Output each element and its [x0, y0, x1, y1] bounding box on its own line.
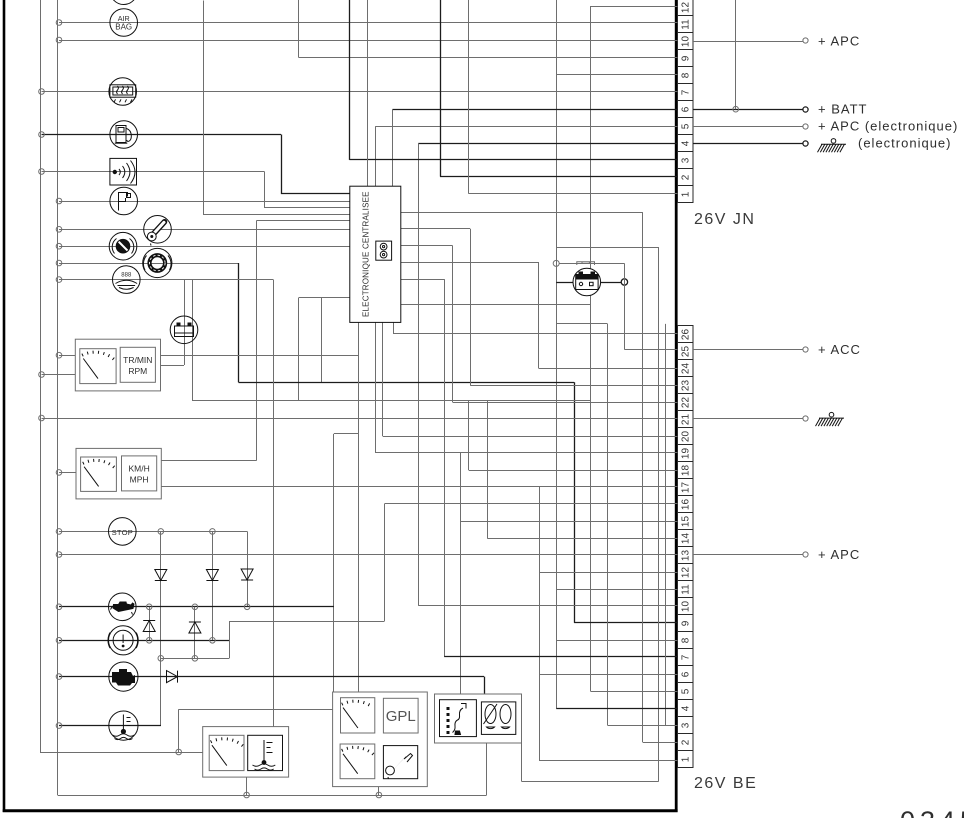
wire vertical to BE pin18 [468, 400, 470, 470]
wire BE pin4 row [556, 708, 677, 710]
diode D2 [206, 570, 218, 581]
GPL gauge icon lower [340, 744, 375, 779]
wire BE pin12 row [539, 572, 678, 574]
warning lamp rear-window defrost [109, 78, 137, 106]
wire diode column 4 [149, 607, 151, 641]
wire branch to seat box top [460, 453, 462, 694]
svg-text:26: 26 [680, 329, 691, 341]
wire speedo feed [59, 472, 76, 474]
wire defrost row to JN pin7 [42, 91, 678, 93]
wire vertical to BE pin14 [487, 400, 489, 538]
wire ground row BE pin21 [42, 418, 678, 420]
junction oil-diode3 [244, 604, 250, 610]
wire JN pin4 to ground electronique [693, 143, 803, 145]
battery charge branch lamp [170, 316, 198, 344]
terminal battery output [621, 279, 627, 285]
wire speedo lower output to BE pin17 [161, 486, 677, 488]
warning lamp (cut off at top) [110, 0, 137, 5]
svg-text:8: 8 [680, 72, 691, 78]
connector 26V JN [678, 0, 694, 203]
junction F row on bus B [56, 198, 62, 204]
svg-text:0345: 0345 [900, 806, 964, 818]
junction coolant row on bus B [56, 723, 62, 729]
wire diode column 1 [160, 531, 162, 725]
wire vertical to JN pin2 [440, 0, 442, 177]
wire ECU right pin4 row [401, 262, 539, 264]
wire gauges box bottom drop [246, 777, 248, 795]
wire long vertical JN12 to BE5 [590, 6, 592, 691]
wire engine MIL row [59, 676, 484, 678]
svg-text:17: 17 [680, 482, 691, 494]
wire vertical x299 [298, 298, 300, 401]
svg-text:+ APC: + APC [818, 547, 860, 562]
GPL text cell [383, 698, 418, 733]
wire BE pin16 row [385, 503, 678, 505]
wire MIL drop to seat box [484, 677, 486, 694]
wire speedometer upper output [161, 460, 256, 462]
wire tach box to battery branch [161, 365, 185, 367]
junction y658 [192, 656, 198, 662]
wire temp probe row to ECU [59, 229, 350, 231]
ground symbol [816, 412, 845, 426]
wire branch down from lamp row [192, 280, 194, 401]
ground symbol (electronique) [818, 139, 847, 153]
svg-text:BAG: BAG [115, 23, 132, 32]
wire bottom bus run [58, 795, 487, 797]
wire tach feed upper [59, 355, 75, 357]
svg-text:7: 7 [680, 654, 691, 660]
wire row y621 [229, 621, 384, 623]
wire vertical feed to +BATT node [735, 0, 737, 109]
svg-text:3: 3 [680, 722, 691, 728]
svg-text:RPM: RPM [128, 366, 147, 376]
wire seat box bottom drop [486, 743, 488, 795]
coolant temp gauge cell [248, 735, 283, 770]
svg-text:TR/MIN: TR/MIN [123, 355, 152, 365]
wire battery top row [556, 247, 659, 249]
svg-text:3: 3 [680, 157, 691, 163]
wire +APC row BE pin13 [59, 554, 678, 556]
junction oil-diode5 [192, 604, 198, 610]
svg-text:24: 24 [680, 363, 691, 375]
diode D6 (series, engine row) [167, 671, 178, 683]
wire oil pressure row [59, 606, 334, 608]
wire JN pin9 row [299, 57, 678, 59]
warning lamp coolant temperature [109, 711, 138, 740]
wire coolant temp row [59, 725, 161, 727]
wire BE pin18 row [469, 470, 678, 472]
wire long vertical lamp row to gauges box [273, 280, 275, 727]
wire row y781 [522, 781, 659, 783]
heated seat / footwell box [435, 694, 522, 743]
wire vertical x321 [321, 298, 323, 383]
wire long vertical to BE pin2 [642, 212, 644, 742]
wire BE pin9 row [574, 622, 677, 624]
wire JN pin5 to +APC electronique [693, 126, 803, 128]
wire vertical x229 [229, 621, 231, 658]
wire vertical to JN pin9 [298, 0, 300, 58]
wire JN pin2 row [440, 176, 678, 178]
svg-text:GPL: GPL [386, 708, 416, 725]
wire JN pin5 row [375, 126, 677, 128]
diode D1 [155, 570, 167, 581]
wire tach output to ECU branch [161, 355, 359, 357]
heated seat icon cell [440, 700, 477, 737]
svg-text:26V JN: 26V JN [694, 211, 755, 228]
svg-text:+ APC: + APC [818, 34, 860, 49]
warning lamp low fuel [110, 121, 138, 149]
frame bottom border [3, 809, 678, 812]
wire BE pin14 row [487, 538, 677, 540]
svg-text:10: 10 [680, 36, 691, 48]
svg-text:11: 11 [680, 19, 691, 30]
net +APC (BE pin 13) terminal [803, 552, 808, 557]
wire vertical to BE pin9 [574, 382, 576, 622]
junction gauges feed [176, 749, 182, 755]
warning lamp brake wear ring [143, 248, 172, 277]
wire long vertical to GPL box [333, 434, 335, 692]
wire row y400 [192, 400, 591, 402]
svg-text:4: 4 [680, 705, 691, 711]
svg-text:2: 2 [680, 739, 691, 745]
junction ring row on bus B [56, 260, 62, 266]
junction oil-diode4 [146, 604, 152, 610]
wire JN pin8 row [556, 74, 677, 76]
wire ECU right pin3 row [401, 245, 453, 247]
wire battery right lead [601, 282, 622, 284]
fuel and temperature gauges box [203, 727, 289, 778]
wire vertical to JN pin1 [468, 0, 470, 194]
ground terminal (BE pin 21) [803, 416, 808, 421]
wire vertical to BE pin24 [538, 262, 540, 368]
svg-text:19: 19 [680, 448, 691, 460]
junction lamp row on bus B [56, 277, 62, 283]
svg-text:+ ACC: + ACC [818, 342, 861, 357]
wire BE pin10 row [418, 605, 677, 607]
wire ECU bottom-right to BE pin26 row [394, 323, 678, 334]
wire BE pin25 to +ACC [693, 349, 803, 351]
diode D4 [143, 621, 155, 632]
wire fuel row jog to ECU [282, 135, 350, 194]
wire ECU right pin2 row [401, 228, 470, 230]
wire vertical x607 [607, 324, 609, 725]
svg-text:STOP: STOP [112, 528, 133, 537]
net +BATT terminal [803, 107, 808, 112]
warning lamp oil pressure [109, 593, 137, 621]
wire BE pin2 row [643, 742, 678, 744]
wire battery to BE pin25 [624, 263, 626, 349]
svg-text:1: 1 [680, 756, 691, 762]
svg-text:10: 10 [680, 601, 691, 613]
wire row y324 [556, 323, 607, 325]
frame left border [3, 0, 6, 812]
junction bottom bus 1 [244, 792, 250, 798]
wire tach feed lower [42, 374, 76, 376]
junction STOP row on bus B [56, 529, 62, 535]
wire choke F row to ECU [59, 201, 350, 203]
svg-text:8: 8 [680, 637, 691, 643]
warning lamp choke F [110, 187, 138, 215]
wire BE pin23 row [470, 385, 677, 387]
wire bus B vertical [57, 0, 59, 795]
wire handbrake row [59, 640, 229, 642]
svg-text:22: 22 [680, 397, 691, 409]
wire sonar jog to ECU [265, 172, 350, 208]
wire gauges-box feed row [40, 752, 203, 754]
junction tach row on bus B [56, 352, 62, 358]
wire vertical to BE pin16 [384, 504, 386, 621]
svg-text:+ BATT: + BATT [818, 102, 867, 117]
wire vertical ring row down [238, 263, 240, 382]
ECU box ELECTRONIQUE CENTRALISEE [350, 186, 401, 322]
wire diode column 5 [194, 607, 196, 659]
wire ECU right pin6 row [401, 304, 591, 306]
wire fuel lamp row [42, 134, 282, 136]
svg-text:6: 6 [680, 671, 691, 677]
wire BE pin13 to +APC [693, 554, 803, 556]
warning lamp AIRBAG [110, 9, 138, 37]
wire row into GPL box left [179, 709, 333, 711]
junction airbag row on bus B [56, 20, 62, 26]
svg-text:ELECTRONIQUE CENTRALISEE: ELECTRONIQUE CENTRALISEE [362, 191, 371, 317]
svg-text:MPH: MPH [130, 475, 149, 485]
tachometer display box [75, 339, 160, 391]
speedometer display box [76, 448, 161, 499]
wire vertical to BE pin22 [452, 246, 454, 402]
diode D3 [241, 569, 253, 580]
battery clamp bracket [577, 262, 595, 265]
svg-text:9: 9 [680, 620, 691, 626]
wire vertical x666 [665, 324, 667, 725]
ground (electronique) terminal [803, 141, 808, 146]
wire JN pin3 row [349, 159, 677, 161]
svg-text:2: 2 [680, 174, 691, 180]
oil temperature cell [383, 746, 417, 779]
svg-text:5: 5 [680, 688, 691, 694]
wire BE pin7 row [444, 656, 677, 658]
tachometer gauge icon [80, 349, 116, 384]
junction brake-d2 [210, 638, 216, 644]
frame right border / connector backbone [675, 0, 678, 812]
wire row to JN pin10 +APC [59, 40, 678, 42]
svg-text:20: 20 [680, 431, 691, 443]
battery supply component [573, 268, 601, 296]
warning lamp engine MIL [109, 662, 138, 691]
junction brake row on bus B [56, 638, 62, 644]
junction STOP row diode2 [210, 529, 216, 535]
junction bottom bus 2 [376, 792, 382, 798]
wire BE pin1 row [539, 760, 678, 762]
wire sonar row [42, 171, 265, 173]
svg-text:25: 25 [680, 346, 691, 358]
wire battery branch top [559, 263, 624, 265]
svg-text:13: 13 [680, 550, 691, 562]
svg-text:26V BE: 26V BE [694, 775, 757, 792]
wire row toward BE pin9 [239, 382, 575, 384]
wire ECU bottom pin 3 down [382, 322, 384, 436]
speedometer KM/H MPH cell [122, 456, 157, 491]
wire BE pin3 row [608, 725, 678, 727]
svg-text:1: 1 [680, 191, 691, 197]
wire BE pin19 row [375, 452, 677, 454]
wire brake wear row [59, 263, 239, 265]
wire ECU pin from speedometer [257, 220, 350, 222]
tachometer TR/MIN RPM cell [120, 347, 155, 382]
junction sonar row on bus A [39, 169, 45, 175]
wire STOP row [59, 531, 247, 533]
svg-text:9: 9 [680, 55, 691, 61]
lamp STOP [109, 518, 137, 546]
svg-text:12: 12 [680, 567, 691, 579]
svg-text:5: 5 [680, 123, 691, 129]
wire seat belt row to ECU [59, 246, 350, 248]
wire vertical gauges to GPL [178, 709, 180, 752]
wire top feed to ECU pin [204, 1, 350, 215]
junction temp row on bus B [56, 227, 62, 233]
wire ECU top feed [367, 0, 369, 186]
wire BE pin24 row [539, 368, 678, 370]
wire BE pin5 row [591, 691, 678, 693]
junction tach lower on bus A [39, 372, 45, 378]
wire ECU bottom pin 1 down [358, 322, 360, 434]
wire BE pin6 row [539, 674, 678, 676]
junction oil row on bus B [56, 604, 62, 610]
wire row y658 [161, 658, 229, 660]
wire ECU right pin5 row [401, 279, 444, 281]
wire vertical speedo to ECU [256, 221, 258, 461]
wire JN pin6 +BATT row [392, 109, 677, 111]
wire airbag row to JN pin11 [59, 22, 678, 24]
connector 26V BE [678, 326, 694, 768]
diode D5 [189, 622, 201, 633]
wire vertical to BE pin23 [470, 229, 472, 385]
net +APC (JN pin 10) terminal [803, 38, 808, 43]
svg-text:11: 11 [680, 584, 691, 595]
wire JN pin4 ground row [418, 143, 677, 145]
svg-text:21: 21 [680, 414, 691, 426]
wire vertical JN4 down to BE pin10 [418, 143, 420, 605]
wire ECU bottom pin 2 down [375, 322, 377, 453]
wire ECU to GPL vertical lower [358, 434, 360, 692]
junction ground row on bus A [39, 415, 45, 421]
warning lamp seat belt [109, 232, 137, 260]
svg-text:14: 14 [680, 533, 691, 545]
warning lamp lighting [113, 266, 141, 294]
wire diode column 2 [212, 531, 214, 640]
wire jog to GPL feed [334, 433, 359, 435]
wire BE pin8 row [556, 640, 677, 642]
wire JN pin10 to +APC [693, 41, 803, 43]
wire ECU right pin1 row [401, 212, 643, 214]
svg-text:18: 18 [680, 465, 691, 477]
wire battery left lead [556, 282, 573, 284]
svg-text:(electronique): (electronique) [858, 136, 952, 151]
wire BE pin25 row [624, 349, 677, 351]
junction fuel row on bus A [39, 132, 45, 138]
svg-text:15: 15 [680, 516, 691, 528]
wire BE pin22 row [453, 402, 678, 404]
svg-text:+ APC (electronique): + APC (electronique) [818, 119, 958, 134]
wire long vertical x659 [658, 247, 660, 781]
net +ACC terminal [803, 347, 808, 352]
wire ECU left lower pin row [299, 297, 350, 299]
svg-text:12: 12 [680, 2, 691, 14]
junction APC row on bus B [56, 552, 62, 558]
wire diode column 3 [247, 531, 249, 606]
wire JN pin12 row [591, 6, 678, 8]
wire bus A vertical [40, 0, 42, 752]
junction +BATT node [733, 106, 739, 112]
terminal circle column1 [158, 656, 164, 662]
svg-text:888: 888 [121, 273, 132, 279]
wire vertical to BE pin7 [444, 279, 446, 656]
wire ECU top pin to JN pin5 [375, 126, 377, 186]
warning lamp outside temp probe [144, 216, 172, 246]
wire BE pin11 row [556, 589, 677, 591]
svg-text:4: 4 [680, 140, 691, 146]
svg-text:7: 7 [680, 89, 691, 95]
GPL gauge icon upper [341, 698, 375, 733]
svg-text:AIR: AIR [118, 14, 130, 23]
wire BE pin20 row [383, 436, 678, 438]
wire ECU top pin to +BATT row [392, 109, 394, 186]
fuel gauge icon [209, 735, 244, 770]
junction row2 on bus B [56, 37, 62, 43]
wire BE pin15 row [461, 521, 678, 523]
junction MIL row on bus B [56, 674, 62, 680]
speedometer gauge icon [81, 457, 117, 491]
terminal battery branch [553, 260, 559, 266]
net +APC electronique terminal [803, 124, 808, 129]
warning lamp parking sonar [110, 158, 137, 185]
wire vertical to BE pin1 [539, 487, 541, 761]
wire branch through battery lamp [184, 280, 186, 365]
svg-text:23: 23 [680, 380, 691, 392]
footwell lamp icon cell [481, 702, 515, 735]
GPL gauges box [333, 692, 428, 787]
svg-text:16: 16 [680, 499, 691, 511]
wire BE pin21 to ground [693, 418, 803, 420]
svg-text:6: 6 [680, 106, 691, 112]
junction speedo row on bus B [56, 470, 62, 476]
junction defrost row on bus A [39, 89, 45, 95]
junction belt row on bus B [56, 243, 62, 249]
warning lamp handbrake [108, 626, 138, 655]
wire long vertical to BE pin4 [556, 0, 558, 708]
wire vertical to JN pin3 [349, 0, 351, 160]
svg-text:KM/H: KM/H [128, 464, 149, 474]
wire seat box right drop [521, 743, 523, 781]
wire JN pin1 row [469, 193, 678, 195]
wire lighting row [59, 279, 273, 281]
junction STOP row diode1 [158, 529, 164, 535]
wire GPL box bottom drop [378, 787, 380, 795]
wire JN pin6 to +BATT [693, 109, 803, 111]
junction brake-d4 [146, 638, 152, 644]
